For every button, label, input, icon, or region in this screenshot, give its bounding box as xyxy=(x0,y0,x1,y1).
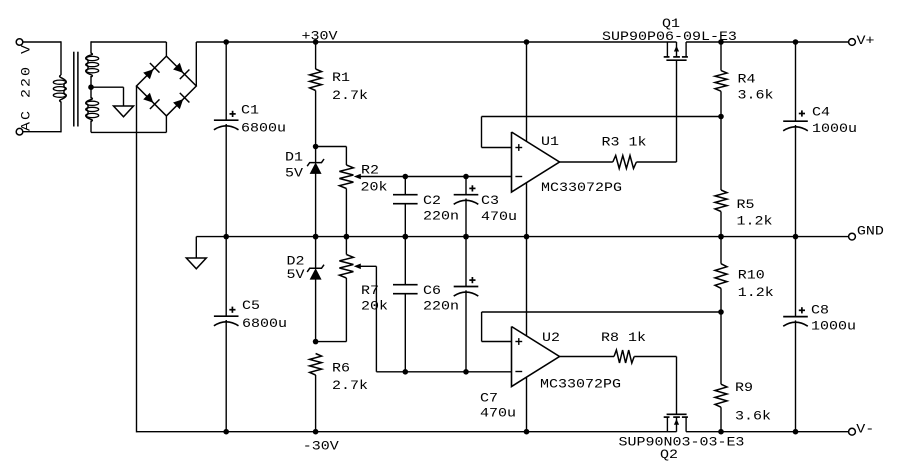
node R9 bottom xyxy=(718,429,724,435)
wire D1 top xyxy=(315,147,317,163)
wire R7 bottom xyxy=(316,278,347,342)
ground GND rail xyxy=(186,258,206,269)
label R5 value xyxy=(737,214,773,229)
node vertical top xyxy=(524,39,530,45)
node vertical bottom xyxy=(524,429,530,435)
wire U1 + input xyxy=(482,147,512,149)
wire -30V rail xyxy=(137,431,849,433)
label C6 value xyxy=(423,299,459,314)
svg-text:5V: 5V xyxy=(285,166,304,181)
terminal AC top xyxy=(16,39,23,46)
label R10 xyxy=(738,268,765,283)
svg-text:470u: 470u xyxy=(481,210,517,225)
wire R4 to R5 xyxy=(720,91,722,190)
label V- xyxy=(856,422,874,437)
label D1 value xyxy=(285,166,304,181)
wire R10 to R9 xyxy=(720,288,722,384)
label R9 value xyxy=(735,409,771,424)
node R10 top xyxy=(718,234,724,240)
capacitor C7 xyxy=(454,277,479,296)
ground center tap xyxy=(114,106,134,117)
svg-text:D2: D2 xyxy=(286,254,304,269)
label V+ xyxy=(857,34,875,49)
mosfet Q2 gate plate xyxy=(667,413,687,415)
label Q2 part xyxy=(619,435,745,450)
svg-text:C3: C3 xyxy=(481,194,499,209)
label C6 xyxy=(423,284,441,299)
label GND xyxy=(857,224,884,239)
wire C2 bottom xyxy=(404,204,406,237)
wire secondary bottom to bridge xyxy=(91,116,166,132)
svg-text:C4: C4 xyxy=(812,105,830,120)
transformer T1 primary coil xyxy=(53,75,66,102)
wire U1 feedback xyxy=(482,117,722,148)
wire bridge left to -30V rail xyxy=(136,86,138,432)
wire C5 bottom xyxy=(225,320,227,432)
label C4 value xyxy=(812,122,857,137)
wire U2 output xyxy=(560,356,615,358)
label R5 xyxy=(737,198,755,213)
mosfet Q1 arrow xyxy=(674,42,679,57)
resistor R6 xyxy=(310,354,322,376)
svg-text:V+: V+ xyxy=(857,34,875,49)
label R10 value xyxy=(738,286,774,301)
svg-text:R9: R9 xyxy=(735,381,753,396)
capacitor C8 xyxy=(783,307,808,326)
label C3 xyxy=(481,194,499,209)
potentiometer R2 xyxy=(339,165,353,189)
node C3 top xyxy=(463,174,469,180)
wire R3 to gate xyxy=(636,60,676,162)
node center tap xyxy=(88,84,94,90)
label R4 xyxy=(738,72,756,87)
wire C8 top xyxy=(795,237,797,317)
wire GND left drop xyxy=(195,237,197,258)
node R6 bottom xyxy=(313,429,319,435)
label D2 xyxy=(286,254,304,269)
wire vertical GND to V- xyxy=(526,237,528,432)
label U2 part xyxy=(540,377,621,392)
transformer core xyxy=(74,52,78,127)
node C1 bottom xyxy=(223,234,229,240)
zener D1 xyxy=(307,159,324,174)
transformer T1 secondary top coil xyxy=(86,53,99,77)
wire R8 to gate xyxy=(634,357,676,415)
wire AC top xyxy=(23,41,61,43)
wire vertical V+ to GND xyxy=(526,42,528,237)
label C4 xyxy=(812,105,830,120)
svg-text:GND: GND xyxy=(857,224,884,239)
svg-text:2.7k: 2.7k xyxy=(332,379,368,394)
diode bridge bottom-left xyxy=(143,93,159,109)
diode bridge bottom-right xyxy=(173,93,189,109)
wire U1 inv line xyxy=(405,176,511,178)
label R6 value xyxy=(332,379,368,394)
label C5 value xyxy=(242,317,287,332)
node C8 bottom xyxy=(793,429,799,435)
label D2 value xyxy=(286,268,305,283)
node R2 bottom xyxy=(344,234,350,240)
node D2 top xyxy=(313,234,319,240)
zener D2 xyxy=(307,265,324,280)
label Q1 xyxy=(662,17,680,32)
wire R1 to D1 xyxy=(315,91,317,147)
wire C7 top xyxy=(465,237,467,287)
svg-text:Q2: Q2 xyxy=(660,448,678,463)
svg-text:C1: C1 xyxy=(241,103,259,118)
wire D1 to R2 xyxy=(316,147,347,166)
wire C1 top xyxy=(225,42,227,120)
node C6 bottom xyxy=(403,369,409,375)
svg-text:D1: D1 xyxy=(285,150,303,165)
terminal V+ xyxy=(849,39,856,46)
mosfet Q2 channel bars xyxy=(664,416,688,418)
svg-text:1.2k: 1.2k xyxy=(738,286,774,301)
svg-text:R8 1k: R8 1k xyxy=(601,331,646,346)
wire C1 bottom xyxy=(225,124,227,237)
wire U2 inv line xyxy=(376,371,511,373)
label R3 xyxy=(602,135,647,150)
node R7 top xyxy=(344,234,350,240)
label C7 value xyxy=(480,406,516,421)
wire R6 bottom xyxy=(315,375,317,432)
wire D2 bottom xyxy=(315,279,317,341)
diode bridge top-left xyxy=(143,63,159,79)
node vertical mid xyxy=(524,234,530,240)
wire C3 bottom xyxy=(465,199,467,237)
terminal V- xyxy=(849,428,856,435)
resistor R8 xyxy=(614,350,634,363)
wire secondary top xyxy=(90,41,92,53)
svg-text:6800u: 6800u xyxy=(242,317,287,332)
wire C8 bottom xyxy=(795,320,797,431)
mosfet Q2 source stub xyxy=(666,417,668,432)
svg-text:3.6k: 3.6k xyxy=(738,88,774,103)
svg-text:C6: C6 xyxy=(423,284,441,299)
label R1 xyxy=(332,71,350,86)
svg-text:AC 220 V: AC 220 V xyxy=(19,43,34,131)
resistor R3 xyxy=(613,156,637,169)
svg-text:470u: 470u xyxy=(480,406,516,421)
wire secondary top to bridge xyxy=(91,42,166,56)
transformer T1 secondary bottom coil xyxy=(86,98,99,122)
svg-text:220n: 220n xyxy=(423,299,459,314)
mosfet Q2 drain stub xyxy=(685,417,687,432)
svg-text:C5: C5 xyxy=(242,299,260,314)
wire C2 top xyxy=(404,177,406,195)
diode bridge top-right xyxy=(173,63,189,79)
capacitor C3 xyxy=(454,185,479,204)
svg-text:R1: R1 xyxy=(332,71,350,86)
wire secondary middle xyxy=(90,76,92,99)
mosfet Q1 source stub xyxy=(666,42,668,57)
label C7 xyxy=(480,391,498,406)
U1 minus sign xyxy=(515,176,522,178)
wire R7 top xyxy=(345,237,347,255)
mosfet Q1 channel bars xyxy=(664,56,688,58)
capacitor C6 xyxy=(393,285,418,294)
label C1 value xyxy=(241,121,286,136)
resistor R4 xyxy=(715,71,727,92)
svg-text:MC33072PG: MC33072PG xyxy=(540,377,621,392)
mosfet Q2 arrow xyxy=(674,417,679,432)
label C3 value xyxy=(481,210,517,225)
wire secondary bottom xyxy=(90,121,92,133)
terminal GND xyxy=(849,233,856,240)
svg-text:U1: U1 xyxy=(541,135,559,150)
wire R5 bottom xyxy=(720,212,722,237)
resistor R10 xyxy=(715,264,727,289)
potentiometer R7 xyxy=(339,255,353,279)
mosfet Q1 drain stub xyxy=(685,42,687,57)
svg-text:R4: R4 xyxy=(738,72,756,87)
wire D1 bottom xyxy=(315,174,317,237)
node R4 top xyxy=(718,39,724,45)
svg-text:220n: 220n xyxy=(423,209,459,224)
label R4 value xyxy=(738,88,774,103)
label AC 220 V xyxy=(19,43,34,131)
label R2 xyxy=(361,163,379,178)
U2 plus sign xyxy=(515,338,522,345)
wire AC bottom xyxy=(23,131,61,133)
svg-text:C8: C8 xyxy=(811,303,829,318)
svg-text:R3 1k: R3 1k xyxy=(602,135,647,150)
label R2 value xyxy=(360,180,387,195)
wire U2 feedback xyxy=(482,312,721,342)
label R9 xyxy=(735,381,753,396)
wire D2 top xyxy=(315,237,317,269)
svg-text:U2: U2 xyxy=(542,331,560,346)
wire C4 bottom xyxy=(795,125,797,237)
svg-text:SUP90P06-09L-E3: SUP90P06-09L-E3 xyxy=(602,30,737,45)
node C2 top xyxy=(403,174,409,180)
wire R10 top xyxy=(720,237,722,264)
op-amp U1 xyxy=(512,132,560,192)
label R7 xyxy=(361,284,379,299)
wire C3 top xyxy=(465,177,467,195)
wire R4 top xyxy=(720,42,722,71)
wire C6 bottom xyxy=(404,294,406,372)
mosfet Q1 gate plate xyxy=(666,59,686,61)
wire C5 top xyxy=(225,237,227,317)
U2 minus sign xyxy=(515,371,522,373)
capacitor C4 xyxy=(783,110,808,130)
label R6 xyxy=(332,361,350,376)
wire C6 top xyxy=(404,237,406,285)
label Q1 part xyxy=(602,30,737,45)
svg-text:SUP90N03-03-E3: SUP90N03-03-E3 xyxy=(619,435,745,450)
node R1 top xyxy=(313,39,319,45)
wire C4 top xyxy=(795,42,797,121)
label -30V xyxy=(303,439,340,454)
label C1 xyxy=(241,103,259,118)
wire bridge right to +30V rail xyxy=(195,42,197,86)
svg-text:20k: 20k xyxy=(361,299,388,314)
wire U1 output xyxy=(560,161,613,163)
svg-text:1000u: 1000u xyxy=(812,122,857,137)
svg-text:6800u: 6800u xyxy=(241,121,286,136)
svg-text:3.6k: 3.6k xyxy=(735,409,771,424)
label C2 xyxy=(423,194,441,209)
svg-text:1.2k: 1.2k xyxy=(737,214,773,229)
bridge rectifier frame xyxy=(137,56,197,116)
label R8 xyxy=(601,331,646,346)
svg-text:-30V: -30V xyxy=(303,439,340,454)
capacitor C2 xyxy=(393,195,418,204)
svg-text:MC33072PG: MC33072PG xyxy=(541,181,622,196)
label D1 xyxy=(285,150,303,165)
wire R2 bottom xyxy=(345,189,347,237)
label U2 xyxy=(542,331,560,346)
terminal AC bottom xyxy=(16,128,23,135)
node U2 feedback xyxy=(718,309,724,315)
node C2 bottom xyxy=(403,234,409,240)
node C1 top xyxy=(223,39,229,45)
wire U2 + input xyxy=(482,341,512,343)
wiper R7 xyxy=(354,264,377,372)
svg-text:R10: R10 xyxy=(738,268,765,283)
label C8 xyxy=(811,303,829,318)
label +30V xyxy=(302,29,339,44)
node C4 top xyxy=(793,39,799,45)
node R5 bottom xyxy=(718,234,724,240)
label C5 xyxy=(242,299,260,314)
wire C7 bottom xyxy=(465,290,467,372)
label U1 xyxy=(541,135,559,150)
label U1 part xyxy=(541,181,622,196)
label Q2 xyxy=(660,448,678,463)
wiper R2 xyxy=(354,174,406,180)
resistor R1 xyxy=(310,69,322,91)
svg-text:R5: R5 xyxy=(737,198,755,213)
node C3 bottom xyxy=(463,234,469,240)
capacitor C5 xyxy=(214,307,239,326)
node D1 top xyxy=(313,144,319,150)
node C4 bottom xyxy=(793,234,799,240)
wire R1 top xyxy=(315,42,317,69)
wire primary bottom xyxy=(60,102,62,133)
wire center tap xyxy=(91,87,124,106)
svg-text:2.7k: 2.7k xyxy=(332,89,368,104)
svg-text:C7: C7 xyxy=(480,391,498,406)
svg-text:C2: C2 xyxy=(423,194,441,209)
node C7 gnd xyxy=(463,234,469,240)
svg-text:20k: 20k xyxy=(360,180,387,195)
svg-text:1000u: 1000u xyxy=(811,319,856,334)
node C5 bottom xyxy=(223,429,229,435)
node C7 bottom xyxy=(463,369,469,375)
U1 plus sign xyxy=(515,144,522,151)
label R1 value xyxy=(332,89,368,104)
svg-text:R6: R6 xyxy=(332,361,350,376)
label R7 value xyxy=(361,299,388,314)
svg-text:+30V: +30V xyxy=(302,29,339,44)
resistor R5 xyxy=(715,190,727,212)
svg-text:5V: 5V xyxy=(286,268,305,283)
node D2 bottom xyxy=(313,339,319,345)
capacitor C1 xyxy=(214,111,239,130)
svg-text:V-: V- xyxy=(856,422,874,437)
wire R9 bottom xyxy=(720,407,722,432)
wire primary top xyxy=(60,41,62,75)
node U1 feedback xyxy=(718,114,724,120)
op-amp U2 xyxy=(512,327,560,387)
wire GND rail xyxy=(196,236,848,238)
label C8 value xyxy=(811,319,856,334)
label C2 value xyxy=(423,209,459,224)
wire +30V rail xyxy=(196,41,848,43)
resistor R9 xyxy=(715,384,727,407)
node D1 bottom xyxy=(313,234,319,240)
node C6 gnd xyxy=(403,234,409,240)
